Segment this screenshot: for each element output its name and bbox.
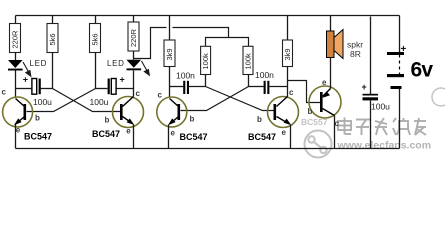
svg-text:e: e (126, 127, 131, 136)
svg-text:220R: 220R (11, 30, 20, 49)
svg-text:220R: 220R (129, 28, 138, 47)
transistor Q3 BC547 (157, 97, 187, 149)
svg-text:c: c (136, 89, 141, 98)
transistor Q1 BC547 (3, 97, 33, 149)
svg-text:c: c (2, 88, 7, 97)
svg-text:5k6: 5k6 (48, 33, 57, 45)
bottom rail 0V (16, 148, 400, 150)
svg-text:BC547: BC547 (24, 132, 52, 142)
svg-text:b: b (308, 107, 313, 116)
svg-text:100n: 100n (255, 70, 274, 80)
svg-text:e: e (16, 126, 21, 135)
svg-text:5k6: 5k6 (91, 33, 100, 45)
capacitor C4 100n (249, 81, 288, 94)
svg-text:e: e (322, 78, 327, 87)
speaker SPKR 8R (327, 16, 344, 89)
svg-text:3k9: 3k9 (283, 48, 292, 60)
wire R3/C2 to Q1 base (27, 89, 96, 112)
capacitor C2 100u (96, 75, 134, 95)
capacitor C5 100u (362, 17, 379, 149)
svg-text:b: b (105, 116, 110, 125)
resistor R3 5k6 (90, 16, 101, 89)
svg-text:LED: LED (107, 59, 125, 68)
svg-text:BC547: BC547 (92, 129, 120, 139)
LED LED2 (127, 60, 142, 97)
svg-text:b: b (257, 115, 262, 124)
svg-text:www.elecfans.com: www.elecfans.com (337, 140, 432, 152)
svg-text:spkr: spkr (347, 40, 363, 50)
svg-text:3k9: 3k9 (165, 48, 174, 60)
capacitor C1 100u (16, 75, 53, 95)
svg-text:e: e (282, 128, 287, 137)
resistor R2 5k6 (47, 16, 58, 89)
watermark logo circle (305, 131, 332, 158)
svg-text:100n: 100n (176, 71, 195, 81)
svg-text:BC547: BC547 (180, 132, 208, 142)
bias bar tone generator (206, 38, 249, 47)
resistor R5 3k9 (164, 16, 175, 98)
battery BT1 6v (387, 16, 407, 149)
wire flasher output to tone generator bias (134, 28, 229, 59)
resistor R7 100k (243, 46, 253, 86)
transistor Q4 BC547 (268, 97, 299, 149)
svg-text:100u: 100u (371, 102, 390, 112)
svg-text:100u: 100u (90, 97, 109, 107)
watermark partial circle right (432, 88, 445, 106)
svg-text:e: e (171, 129, 176, 138)
watermark CJK text 电子发烧友 (338, 118, 426, 136)
svg-text:100u: 100u (33, 97, 52, 107)
svg-text:c: c (335, 119, 340, 128)
svg-text:+: + (120, 75, 125, 85)
resistor R1 220R (10, 16, 21, 61)
LED1 arrow (23, 62, 31, 76)
wire R7/C4 to Q3 base (181, 87, 249, 111)
top rail +6V (16, 15, 400, 17)
svg-text:c: c (289, 88, 294, 97)
capacitor C3 100n (170, 81, 206, 94)
svg-text:+: + (401, 44, 407, 55)
transistor Q5 BC557 (309, 86, 341, 149)
resistor R4 220R (128, 16, 139, 60)
resistor R6 100k (201, 46, 211, 86)
wire R2/C1 to Q2 base (53, 89, 121, 112)
svg-text:c: c (158, 91, 163, 100)
svg-text:100k: 100k (201, 53, 210, 70)
resistor R8 3k9 (283, 16, 293, 97)
svg-text:BC547: BC547 (248, 132, 276, 142)
svg-text:LED: LED (30, 59, 48, 68)
wire R6/C3 to Q4 base (206, 87, 274, 111)
transistor Q2 BC547 (113, 97, 144, 149)
LED2 arrow (142, 61, 150, 75)
svg-text:8R: 8R (350, 49, 361, 59)
svg-text:6v: 6v (411, 59, 434, 82)
LED LED1 (8, 60, 23, 98)
svg-text:b: b (35, 114, 40, 123)
svg-text:100k: 100k (244, 53, 253, 70)
svg-text:b: b (190, 115, 195, 124)
svg-text:+: + (23, 75, 28, 85)
wire Q4 collector to Q5 base (288, 81, 321, 103)
svg-text:+: + (362, 82, 367, 92)
